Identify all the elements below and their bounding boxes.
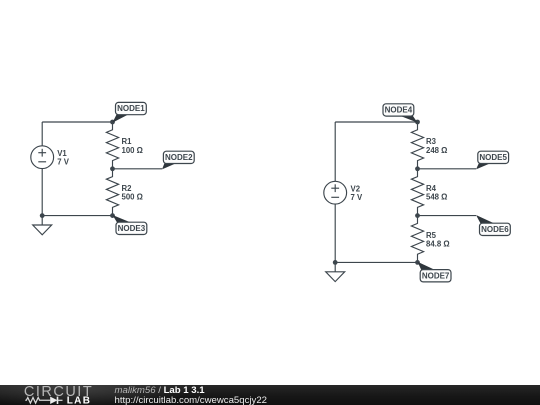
svg-text:248 Ω: 248 Ω [426, 146, 447, 155]
svg-text:LAB: LAB [67, 396, 92, 405]
svg-text:R5: R5 [426, 231, 437, 240]
junction R3-R4 junction [415, 166, 420, 171]
junction R4-R5 junction [415, 213, 420, 218]
node flag NODE2 [162, 151, 194, 169]
resistor R5 [411, 216, 423, 263]
resistor R3 [411, 122, 423, 169]
junction R2 bottom junction [110, 213, 115, 218]
label V2 name and value [351, 185, 364, 203]
node flag NODE1 [113, 102, 147, 122]
wire top rail left circuit [42, 121, 112, 123]
label R5 name and value [426, 231, 450, 249]
CircuitLab logo [23, 384, 115, 405]
node flag NODE5 [476, 151, 509, 169]
svg-text:7 V: 7 V [351, 193, 364, 202]
svg-text:R2: R2 [122, 184, 133, 193]
svg-text:R3: R3 [426, 137, 437, 146]
svg-text:NODE3: NODE3 [118, 224, 146, 233]
svg-text:R4: R4 [426, 184, 437, 193]
junction R1-R2 junction [110, 166, 115, 171]
node flag NODE3 [113, 215, 147, 235]
junction right ground junction [333, 260, 338, 265]
ground right [326, 262, 345, 281]
footer bar [0, 385, 540, 405]
resistor R4 [411, 169, 423, 216]
wire V2 bottom lead [334, 204, 336, 262]
svg-text:NODE2: NODE2 [165, 153, 193, 162]
svg-text:V2: V2 [351, 185, 361, 194]
wire NODE2 stub [113, 168, 163, 170]
junction left ground junction [40, 213, 45, 218]
wire V2 top lead [334, 122, 336, 181]
svg-text:R1: R1 [122, 137, 133, 146]
wire V1 bottom lead [41, 169, 43, 216]
svg-text:84.8 Ω: 84.8 Ω [426, 240, 450, 249]
junction R3 top junction [415, 120, 420, 125]
svg-text:7 V: 7 V [57, 158, 70, 167]
wire NODE6 stub [418, 215, 477, 217]
voltage source V1 [31, 146, 54, 169]
svg-text:548 Ω: 548 Ω [426, 193, 447, 202]
footer credit line [115, 386, 205, 396]
svg-text:500 Ω: 500 Ω [122, 193, 143, 202]
resistor R1 [106, 122, 118, 169]
label R3 name and value [426, 137, 447, 155]
wire NODE5 stub [418, 168, 477, 170]
wire V1 top lead [41, 122, 43, 146]
label V1 name and value [57, 149, 70, 167]
svg-text:NODE1: NODE1 [117, 104, 145, 113]
junction R1 top junction [110, 120, 115, 125]
logo wire [58, 399, 63, 401]
wire bottom rail left circuit [42, 215, 112, 217]
ground left [33, 216, 52, 235]
svg-text:NODE7: NODE7 [422, 271, 450, 280]
wire bottom rail right circuit [335, 261, 417, 263]
logo diode [50, 397, 57, 404]
svg-text:NODE5: NODE5 [479, 153, 507, 162]
svg-text:NODE6: NODE6 [481, 225, 509, 234]
node flag NODE6 [476, 215, 510, 236]
logo resistor zigzag [25, 398, 50, 404]
label R4 name and value [426, 184, 447, 202]
wire top rail right circuit [335, 121, 417, 123]
resistor R2 [106, 169, 118, 216]
label R1 name and value [122, 137, 143, 155]
label R2 name and value [122, 184, 143, 202]
voltage source V2 [324, 181, 347, 204]
footer url line [115, 396, 268, 405]
node flag NODE4 [383, 104, 418, 123]
svg-text:V1: V1 [57, 149, 67, 158]
node flag NODE7 [418, 262, 452, 282]
svg-text:100 Ω: 100 Ω [122, 146, 143, 155]
svg-text:NODE4: NODE4 [385, 106, 413, 115]
junction R5 bottom junction [415, 260, 420, 265]
